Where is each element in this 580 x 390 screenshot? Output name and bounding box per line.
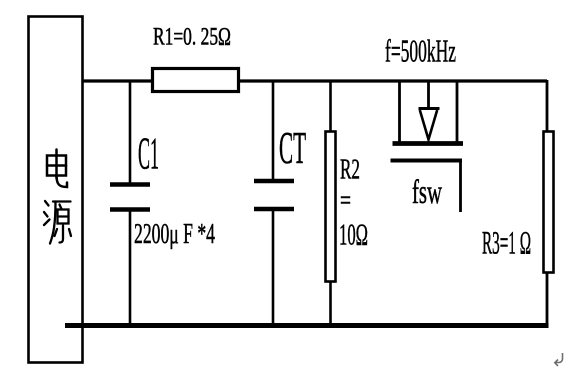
resistor R3 body [544,132,554,273]
resistor R1 body [153,69,239,92]
top wire (node A: source to R3 corner) [83,79,547,82]
svg-text:R1=0. 25Ω: R1=0. 25Ω [153,24,231,51]
bottom wire (ground return) [65,323,549,328]
power source box (电源) [29,17,83,363]
svg-text:R2: R2 [340,154,360,186]
switch Q1: middle arrow lead [427,81,430,108]
switch Q1: arrow triangle [420,110,437,140]
switch Q1: gate bar [391,159,463,163]
svg-text:f=500kHz: f=500kHz [385,33,456,69]
wire: R3 bottom lead [546,272,549,327]
switch Q1: right lead [456,81,459,143]
svg-text:R3=1 Ω: R3=1 Ω [482,226,531,262]
capacitor CT plates [254,181,294,209]
resistor R2 body [326,132,336,282]
svg-text:10Ω: 10Ω [339,217,368,252]
wire: C1 top lead [129,81,132,184]
paragraph return mark [555,353,563,366]
svg-text:2200μ F *4: 2200μ F *4 [134,219,215,250]
switch Q1: left drain lead [398,81,401,143]
wire: R2 bottom lead [329,281,332,327]
svg-text:CT: CT [279,122,306,173]
wire: R2 top lead [329,81,332,132]
svg-text:=: = [340,185,351,217]
wire: CT bottom lead [272,209,275,327]
switch Q1: channel thick bar [393,141,464,146]
wire: R3 top lead (right corner drop) [546,80,549,132]
svg-text:C1: C1 [138,128,159,179]
svg-text:fsw: fsw [412,174,442,211]
switch Q1: arrow top bar [419,107,440,110]
wire: CT top lead [272,81,275,181]
capacitor C1 plates [110,185,150,210]
switch Q1: gate lead [459,160,462,212]
电 character (dian) [47,150,67,188]
源 character (yuan) [44,201,71,244]
wire: C1 bottom lead [129,210,132,327]
